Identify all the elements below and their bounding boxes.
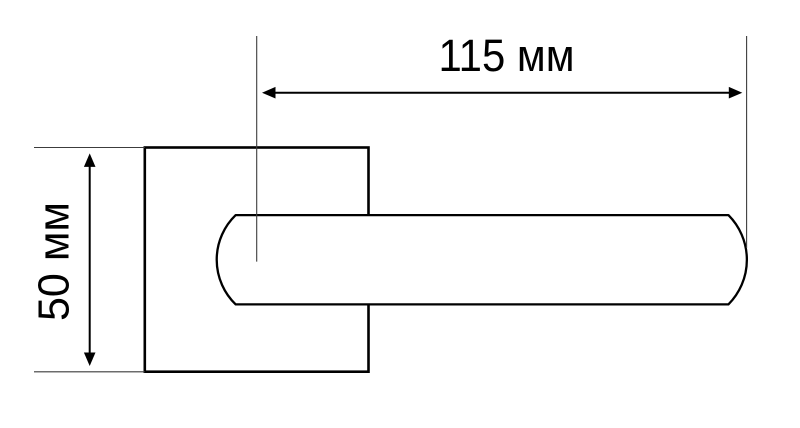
dimension line 50 mm shaft <box>89 165 91 354</box>
handle lever <box>217 215 747 304</box>
svg-text:50 мм: 50 мм <box>30 202 79 321</box>
extension line top left horizontal <box>34 147 145 149</box>
square rose plate <box>145 148 369 372</box>
arrowhead right of 115 mm <box>729 87 743 99</box>
arrowhead bottom of 50 mm <box>84 353 96 367</box>
extension line right vertical <box>746 36 748 248</box>
arrowhead left of 115 mm <box>262 87 276 99</box>
svg-text:115 мм: 115 мм <box>439 30 575 81</box>
extension line bottom left horizontal <box>34 371 145 373</box>
extension line center vertical <box>256 36 258 262</box>
arrowhead top of 50 mm <box>84 153 96 167</box>
dimension line 115 mm shaft <box>274 92 732 94</box>
